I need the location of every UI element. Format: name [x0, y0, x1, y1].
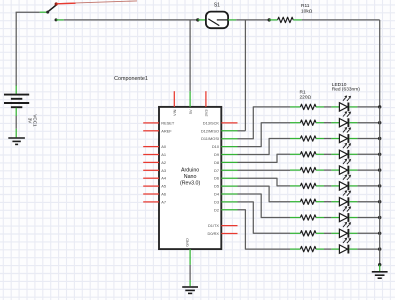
- wire D5 to LED row 7: [238, 186, 291, 202]
- svg-text:A4: A4: [161, 176, 167, 181]
- pin D1/TX: [221, 225, 237, 227]
- resistor + LED row 3: [290, 127, 381, 143]
- resistor + LED row 4: [290, 143, 381, 159]
- pin AREF: [143, 130, 159, 132]
- svg-text:220Ω: 220Ω: [300, 94, 312, 100]
- toggle switch terminal bottom: [55, 18, 58, 21]
- pin D3: [221, 201, 237, 203]
- svg-text:D9: D9: [214, 152, 219, 157]
- pin D12/MISO: [221, 130, 237, 132]
- svg-text:D8: D8: [214, 160, 219, 165]
- pin 3V3: [205, 91, 207, 107]
- resistor + LED row 7: [290, 191, 381, 207]
- svg-text:D1/TX: D1/TX: [208, 223, 219, 228]
- pin A1: [143, 154, 159, 156]
- pin D2: [221, 209, 237, 211]
- wire D4 to LED row 8: [238, 194, 291, 218]
- battery VCC1 positive pin: [15, 86, 17, 94]
- ground symbol (bus): [372, 271, 388, 273]
- ground symbol (arduino): [182, 286, 198, 288]
- node junction R11: [268, 18, 271, 21]
- pushbutton S1 contacts: [208, 19, 219, 26]
- resistor R11 pin left: [269, 19, 277, 21]
- pin D11/MOSI: [221, 138, 237, 140]
- wire D10 to LED row 2: [238, 123, 291, 147]
- wire D3 to LED row 9: [238, 202, 291, 233]
- pin D9: [221, 154, 237, 156]
- wire rail to 5V pin: [189, 20, 191, 91]
- toggle switch bottom pin: [56, 19, 64, 21]
- svg-text:A6: A6: [161, 192, 166, 197]
- pin D4: [221, 193, 237, 195]
- wire GND to ground: [189, 265, 191, 280]
- wire battery+ to switch common: [15, 12, 17, 86]
- wire D6 to LED row 6: [238, 178, 291, 186]
- node junction S1 left: [196, 18, 199, 21]
- resistor R11: [278, 17, 294, 22]
- resistor + LED row 8: [290, 206, 381, 222]
- resistor + LED row 6: [290, 175, 381, 191]
- resistor + LED row 9: [290, 222, 381, 238]
- svg-text:Red (633nm): Red (633nm): [332, 87, 360, 93]
- pin A4: [143, 177, 159, 179]
- wire D8 to LED row 4: [238, 154, 291, 162]
- svg-text:10kΩ: 10kΩ: [301, 8, 313, 14]
- pin RESET: [143, 122, 159, 124]
- svg-text:A3: A3: [161, 168, 166, 173]
- ground symbol (battery): [8, 137, 25, 139]
- wire D2 to LED row 10: [238, 210, 291, 249]
- svg-text:D4: D4: [214, 192, 220, 197]
- label VCC1 3V: [27, 114, 37, 127]
- svg-text:S1: S1: [214, 2, 220, 8]
- svg-text:5V: 5V: [188, 109, 193, 114]
- pushbutton S1 body: [206, 12, 228, 29]
- pin D8: [221, 161, 237, 163]
- svg-text:D10: D10: [212, 144, 220, 149]
- svg-text:3V: 3V: [27, 118, 32, 125]
- svg-text:D0/RX: D0/RX: [208, 231, 220, 236]
- wire D7 to LED row 5: [238, 169, 291, 171]
- svg-text:AREF: AREF: [161, 128, 172, 133]
- pin 5V: [189, 91, 191, 107]
- pushbutton S1 pin left: [198, 19, 206, 21]
- pin D6: [221, 177, 237, 179]
- ground pin (battery): [15, 129, 17, 138]
- svg-text:A2: A2: [161, 160, 166, 165]
- svg-text:D2: D2: [214, 207, 219, 212]
- resistor + LED row 2: [290, 112, 381, 128]
- svg-text:Componente1: Componente1: [114, 76, 148, 82]
- svg-text:VIN: VIN: [172, 109, 177, 116]
- svg-text:D7: D7: [214, 168, 219, 173]
- resistor R11 pin right: [293, 19, 301, 21]
- ground pin (arduino): [189, 280, 191, 286]
- wire LED bus: [379, 107, 381, 265]
- svg-text:GND: GND: [185, 238, 190, 247]
- pin A5: [143, 185, 159, 187]
- battery VCC1: [4, 94, 29, 96]
- svg-text:D11/MOSI: D11/MOSI: [201, 136, 219, 141]
- svg-text:D13/SCK: D13/SCK: [203, 120, 220, 125]
- svg-text:RESET: RESET: [161, 120, 175, 125]
- svg-text:3V3: 3V3: [204, 110, 209, 117]
- resistor + LED row 5: [290, 159, 381, 175]
- wire switch to S1: [64, 19, 198, 21]
- wire D9 to LED row 3: [238, 139, 291, 155]
- pin A2: [143, 161, 159, 163]
- pin D7: [221, 169, 237, 171]
- svg-text:(Rev3.0): (Rev3.0): [180, 180, 201, 186]
- op-amp U1 Arduino Nano body: [159, 107, 221, 249]
- toggle switch terminal top: [55, 2, 58, 5]
- wire D11/MOSI to LED row 1: [238, 107, 291, 139]
- svg-text:D6: D6: [214, 176, 219, 181]
- toggle switch common pin: [40, 11, 48, 13]
- pin D5: [221, 185, 237, 187]
- red dangling wire: [58, 1, 138, 4]
- pin A6: [143, 193, 159, 195]
- wire R11 to bus: [302, 19, 380, 21]
- svg-text:D3: D3: [214, 199, 219, 204]
- resistor + LED row 1: [290, 96, 381, 112]
- svg-text:A5: A5: [161, 184, 166, 189]
- pin D0/RX: [221, 233, 237, 235]
- pin A0: [143, 146, 159, 148]
- wire battery- to ground: [15, 116, 17, 129]
- pin VIN: [173, 91, 175, 107]
- pin GND: [189, 249, 191, 265]
- pushbutton S1 pin right: [228, 19, 236, 21]
- node bus bottom: [378, 263, 381, 266]
- pin D10: [221, 146, 237, 148]
- svg-text:A0: A0: [161, 144, 167, 149]
- toggle switch lever: [48, 5, 57, 12]
- svg-text:Arduino: Arduino: [181, 167, 199, 173]
- svg-text:A1: A1: [161, 152, 166, 157]
- ground pin (bus): [379, 265, 381, 271]
- svg-text:R11: R11: [301, 3, 310, 9]
- wire S1 to R11: [236, 19, 269, 21]
- wire S1 tap to D12: [244, 20, 246, 131]
- resistor + LED row 10: [290, 238, 381, 254]
- svg-text:D12/MISO: D12/MISO: [201, 128, 219, 133]
- svg-text:Nano: Nano: [184, 174, 197, 180]
- svg-text:D5: D5: [214, 184, 219, 189]
- pin D13/SCK: [221, 122, 237, 124]
- svg-text:A7: A7: [161, 199, 166, 204]
- battery negative pin: [15, 108, 17, 116]
- pin A7: [143, 201, 159, 203]
- pin A3: [143, 169, 159, 171]
